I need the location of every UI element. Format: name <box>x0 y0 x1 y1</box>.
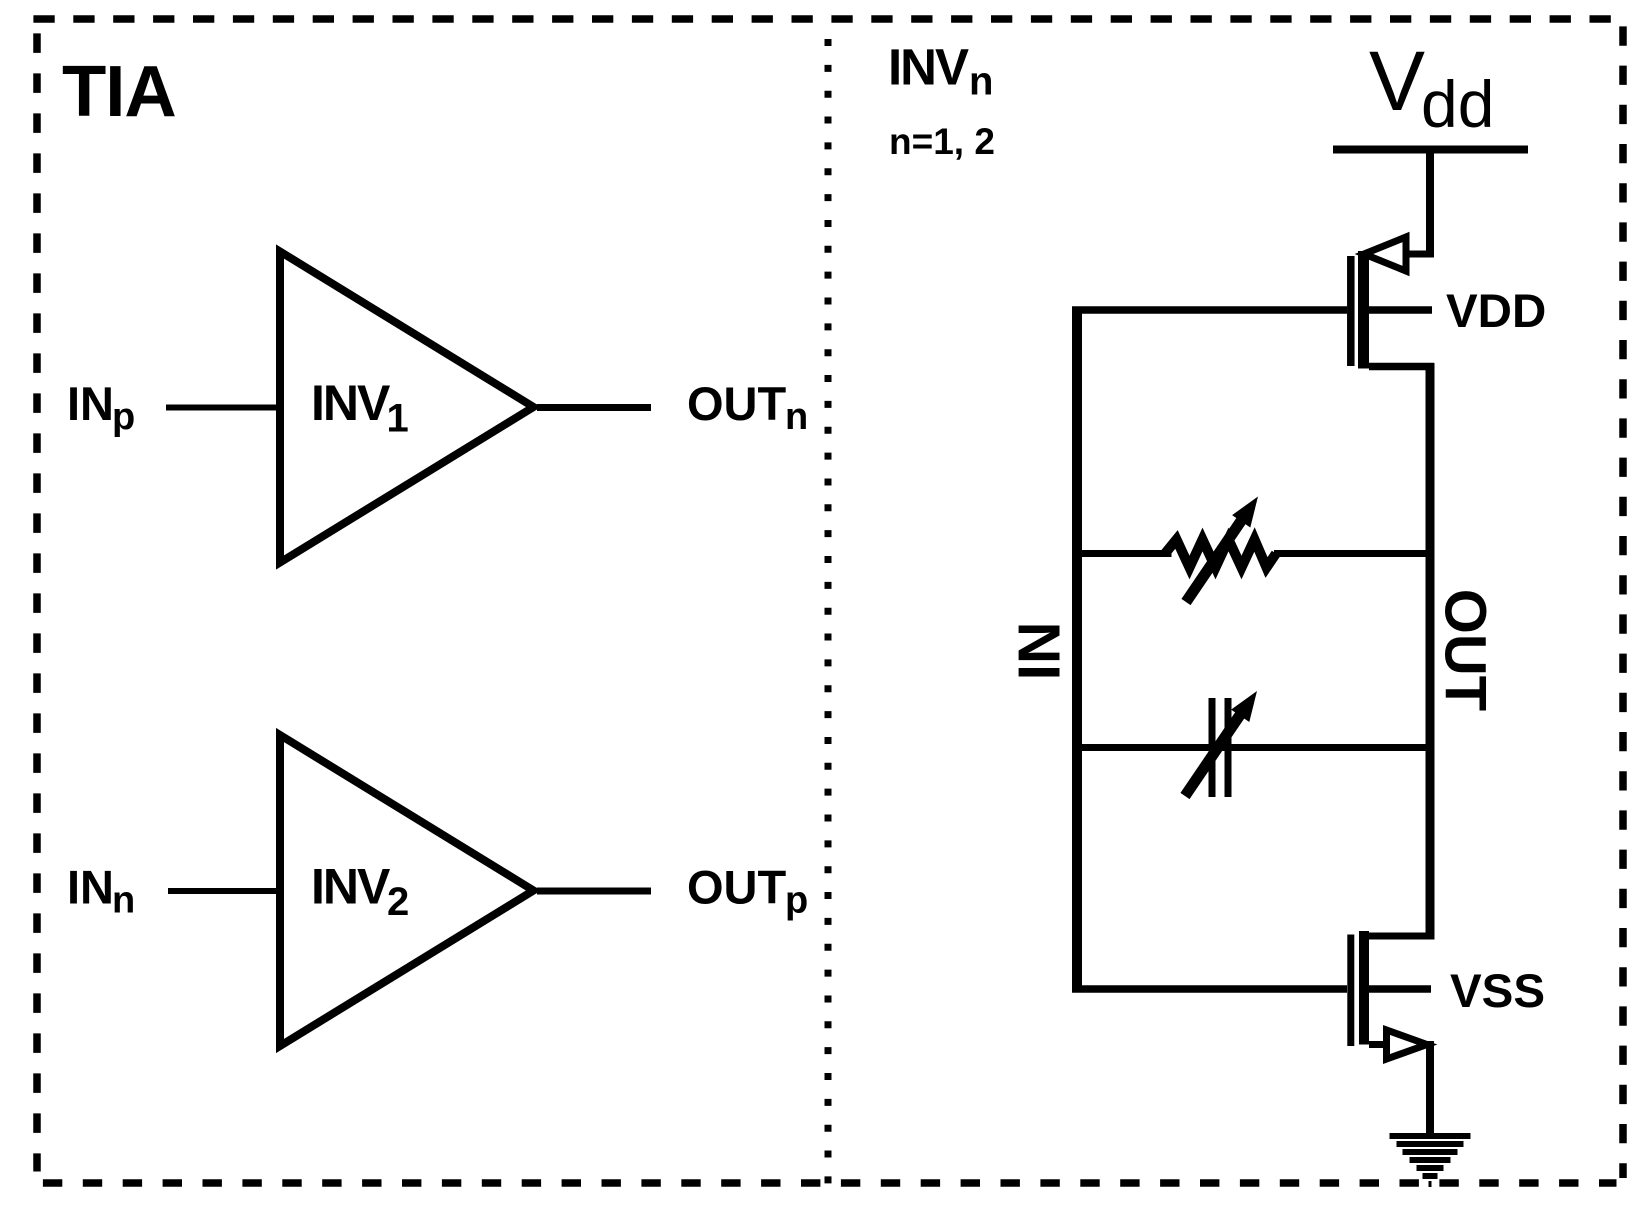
svg-text:n=1, 2: n=1, 2 <box>889 121 995 162</box>
svg-text:IN: IN <box>67 377 114 430</box>
wire resistor branch right <box>1274 550 1430 557</box>
transistor M1 PMOS channel bar <box>1358 251 1369 369</box>
transistor M2 NMOS body stub <box>1369 985 1431 993</box>
resistor R (variable) zigzag <box>1165 540 1276 568</box>
resistor R variable arrow <box>1186 518 1243 602</box>
svg-text:OUT: OUT <box>1433 589 1498 711</box>
svg-text:INV: INV <box>311 375 391 431</box>
wire IN_n input to INV2 <box>168 888 280 894</box>
svg-text:n: n <box>969 60 993 104</box>
svg-text:p: p <box>785 880 808 922</box>
wire Vdd rail to PMOS source <box>1426 150 1434 258</box>
Vdd supply rail <box>1333 146 1528 154</box>
svg-text:INV: INV <box>311 859 391 915</box>
transistor M2 NMOS channel bar <box>1359 931 1369 1045</box>
svg-text:IN: IN <box>67 861 114 914</box>
dashed border right <box>1619 26 1627 1178</box>
wire OUT vertical <box>1426 363 1435 940</box>
svg-text:dd: dd <box>1421 67 1494 141</box>
capacitor C variable arrow <box>1185 712 1242 796</box>
capacitor C (variable) right plate <box>1225 698 1232 797</box>
wire IN vertical <box>1072 307 1082 993</box>
dashed border top <box>33 15 1627 23</box>
wire INV2 output <box>537 888 651 895</box>
svg-text:1: 1 <box>387 397 409 441</box>
svg-text:OUT: OUT <box>687 377 787 430</box>
inverter INV2 <box>280 735 534 1046</box>
wire IN_p input to INV1 <box>166 405 280 411</box>
wire capacitor branch left <box>1077 744 1430 751</box>
svg-text:INV: INV <box>888 39 969 96</box>
inverter INV1 <box>280 252 534 563</box>
transistor M2 NMOS source stub <box>1369 1041 1385 1048</box>
transistor M1 PMOS source stub <box>1404 251 1434 258</box>
wire NMOS gate to IN <box>1072 985 1347 993</box>
svg-text:IN: IN <box>1007 622 1073 681</box>
svg-text:V: V <box>1369 34 1425 128</box>
svg-text:n: n <box>785 396 808 438</box>
transistor M1 PMOS gate bar <box>1347 256 1355 366</box>
wire PMOS gate to IN <box>1072 306 1347 314</box>
transistor M1 PMOS drain stub <box>1369 363 1434 371</box>
wire NMOS source to ground <box>1426 1041 1434 1136</box>
transistor M2 NMOS drain stub <box>1369 933 1434 940</box>
transistor M1 PMOS body stub <box>1369 306 1432 314</box>
svg-text:VSS: VSS <box>1450 965 1545 1018</box>
svg-text:n: n <box>112 880 135 922</box>
transistor M1 PMOS source arrow <box>1364 237 1406 271</box>
svg-text:TIA: TIA <box>62 51 176 132</box>
capacitor C (variable) left plate <box>1209 698 1216 797</box>
ground symbol <box>1390 1136 1471 1184</box>
dotted divider between TIA box and INVn box <box>825 39 832 1184</box>
dashed border bottom <box>43 1179 1617 1187</box>
svg-text:VDD: VDD <box>1446 285 1546 338</box>
svg-text:OUT: OUT <box>687 861 787 914</box>
dashed border left <box>33 33 41 1171</box>
wire INV1 output <box>537 404 651 411</box>
transistor M2 NMOS gate bar <box>1347 935 1354 1047</box>
svg-text:p: p <box>112 396 135 438</box>
wire resistor branch left <box>1077 550 1172 557</box>
svg-text:2: 2 <box>387 880 409 924</box>
transistor M2 NMOS source arrow <box>1387 1030 1428 1059</box>
